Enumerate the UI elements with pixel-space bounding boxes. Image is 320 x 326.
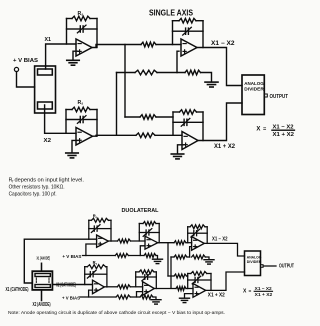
wire U2 output [93,134,137,137]
wire B5 feedback right [206,227,208,244]
capacitor B1 feedback [89,228,95,230]
wire X1 photodiode to op-amp U1 [46,44,76,69]
wire [187,275,188,277]
wire B4 + input to bias divider [137,292,143,297]
svg-text:X2 (CATHODE): X2 (CATHODE) [56,282,76,288]
svg-text:X1 − X2: X1 − X2 [255,286,272,291]
resistor B1 to B3 [118,239,131,243]
duolateral PSD sensor [32,271,52,290]
resistor Rf B6 [188,273,191,275]
resistor Rf U3 [173,20,180,22]
analog divider block bottom [245,251,261,276]
capacitor B4 feedback [136,276,145,278]
wire B3 feedback right [158,224,160,243]
wire U3 output X1-X2 to divider [197,48,242,86]
wire bias row B2 B4 [80,296,116,298]
resistor Rf B5 [188,226,190,228]
output pin top divider [264,94,267,97]
resistor B4 to B6 [176,287,186,291]
resistor Rf B4 [136,271,139,273]
svg-text:OUTPUT: OUTPUT [279,264,294,270]
wire B1 feedback left [88,220,90,239]
output pin bottom divider [261,265,264,268]
wire X1 cathode to op-amp B1 [24,239,96,283]
ground B6 + input [185,294,194,298]
wire U2 feedback left [65,110,67,134]
wire to U4 inverting input [155,134,182,136]
resistor bias row 2 [116,295,130,299]
svg-text:X1 − X2: X1 − X2 [211,41,235,47]
wire to B4 inverting input [130,286,142,288]
op-amp B5 [192,237,205,251]
svg-text:f: f [12,179,13,183]
svg-text:X1 + X2: X1 + X2 [208,293,225,299]
op-amp U2 [76,128,93,146]
wire crossover X2 vertical [116,73,118,136]
svg-text:Capacitors typ. 100 pf.: Capacitors typ. 100 pf. [9,191,57,197]
resistor Rf B1 [91,218,108,222]
ground B4 + network [151,299,161,301]
wire to U4 summing node [156,116,173,118]
resistor R3 U3 + to ground [185,70,201,75]
wire X2 anode stub [41,290,43,301]
wire U4 output X1+X2 to divider [198,103,242,141]
resistor R5 X1 to U4 summing input [140,115,156,120]
wire [130,296,140,298]
resistor R4 to U4 summing input [136,133,155,138]
wire B5 output X1-X2 to divider [204,243,244,256]
wire B4 feedback right [155,272,157,289]
wire X1 anode stub [41,263,43,271]
resistor B3 to B5 [174,241,186,245]
svg-text:+ V BIAS: + V BIAS [62,254,82,260]
capacitor C2 U2 feedback [66,119,80,121]
wire row X2 to U3 + [117,72,136,74]
op-amp B2 [93,280,105,294]
svg-text:SINGLE AXIS: SINGLE AXIS [149,7,193,17]
svg-text:f: f [82,102,84,106]
wire to B6 inverting input [186,288,193,290]
wire B2 feedback left [84,267,86,285]
op-amp U1 [76,39,92,56]
wire U1 output to node A [92,45,141,48]
capacitor C1 U1 feedback [67,28,81,30]
svg-text:=: = [263,126,267,132]
wire B6 feedback right [210,274,212,291]
resistor crossover to B6 summing node [174,274,187,278]
wire B2 output [104,286,117,288]
svg-text:X1 + X2: X1 + X2 [255,292,273,297]
wire U1 feedback right [96,19,98,48]
wire crossover B4 to B5 vertical [170,257,172,288]
wire U4 feedback left [172,112,174,135]
wire B2 feedback right [106,267,108,287]
wire B1 feedback right [110,220,112,241]
resistor Rf U1 [67,18,73,20]
wire B2 + input to bias [89,290,93,297]
resistor R1 to U3 inverting input [141,42,156,47]
svg-text:DIVIDER: DIVIDER [244,86,264,91]
capacitor B2 feedback [85,273,91,275]
wire [168,275,174,277]
wire to ground [156,256,158,259]
wire B4 feedback left [135,272,137,287]
svg-text:=: = [249,289,252,294]
resistor B4 + to ground [140,295,153,299]
wire to ground [201,73,212,82]
wire node A junction vertical [124,45,126,118]
svg-text:+ V BIAS: + V BIAS [62,295,81,301]
analog divider block top [242,75,264,115]
wire U3 feedback left [172,21,174,45]
wire B4 output [154,288,176,290]
svg-text:X1 (CATHODE): X1 (CATHODE) [6,287,29,293]
capacitor B6 feedback [188,279,195,281]
ground U3 + network [205,81,218,83]
svg-text:+ V BIAS: + V BIAS [13,58,39,64]
capacitor B3 feedback [139,232,146,234]
resistor B3 + to ground [144,254,156,258]
wire U4 feedback right [202,112,204,141]
resistor Rf B2 [85,266,88,268]
svg-text:X1 − X2: X1 − X2 [212,237,228,243]
op-amp B4 [143,282,155,296]
op-amp U3 [181,39,197,56]
wire crossover B3 to B6 vertical [167,243,169,276]
wire [171,256,174,258]
photodiode PSD single-axis [35,66,56,113]
wire B6 feedback left [187,274,189,289]
svg-text:X1 + X2: X1 + X2 [214,144,236,150]
wire B1 output [108,240,117,242]
resistor crossover to B5 + [174,255,187,259]
wire B6 output X1+X2 to divider [206,272,245,290]
wire U3 feedback right [202,21,204,48]
svg-text:X: X [243,289,247,295]
capacitor B5 feedback [188,232,194,234]
svg-text:f: f [96,262,97,266]
svg-text:f: f [96,215,97,219]
wire row X1 to U4 [125,116,140,118]
resistor B2 to B4 [117,285,130,289]
svg-text:X: X [256,127,260,133]
resistor bias row 1 [115,254,128,258]
resistor Rf U4 [173,111,180,113]
wire B5 feedback left [187,227,189,243]
op-amp B1 [97,235,109,247]
capacitor C3 U3 feedback [173,30,186,32]
wire U3 + input down [177,51,179,72]
ground B3 + network [153,258,163,260]
resistor Rf U2 [66,109,72,111]
wire to U3 inverting input [156,44,181,46]
op-amp B3 [145,236,158,249]
op-amp U4 [182,132,198,150]
wire +V bias to photodiode [17,72,35,87]
wire X2 cathode to op-amp B2 [52,284,92,286]
wire to ground [153,297,156,299]
ground U4 + input [178,145,185,154]
wire B3 feedback left [138,224,140,242]
ground B5 + network [204,259,214,261]
wire B3 output [158,242,174,244]
svg-text:OUTPUT: OUTPUT [270,94,289,100]
wire B3 + input to bias divider [140,246,145,256]
wire bias row B1 B3 [83,255,116,257]
ground U1 + input [73,51,78,60]
resistor Rf B3 [139,223,143,225]
svg-text:DUOLATERAL: DUOLATERAL [122,208,160,214]
svg-text:depends on input light level.: depends on input light level. [15,177,85,183]
wire U2 feedback right [96,110,98,137]
op-amp B6 [193,284,206,298]
svg-text:X1 + X2: X1 + X2 [273,132,295,138]
wire X2 photodiode to op-amp U2 [45,105,76,133]
wire to B5 inverting input [186,242,192,244]
ground U2 + input [72,140,78,152]
svg-text:ANALOG: ANALOG [244,81,264,86]
svg-text:Note: Anode operating circuit: Note: Anode operating circuit is duplica… [8,310,225,315]
svg-text:X1 (ANODE): X1 (ANODE) [37,256,51,261]
wire [128,255,144,257]
svg-text:DIVIDER: DIVIDER [247,259,262,264]
svg-text:X1: X1 [45,37,52,43]
svg-text:X2: X2 [44,138,52,144]
wire [157,72,185,74]
wire to ground [205,257,209,259]
resistor R2 U3 + input [135,70,157,75]
wire output bottom [263,265,276,267]
wire U1 feedback left [66,19,68,45]
svg-text:X2 (ANODE): X2 (ANODE) [33,302,51,308]
wire to B3 inverting input [131,240,146,242]
svg-text:Other resistors typ. 10KΩ.: Other resistors typ. 10KΩ. [9,184,65,190]
wire [187,256,190,258]
wire B1 + input to bias [86,244,97,256]
resistor B5 + to ground [192,255,206,259]
capacitor C4 U4 feedback [173,121,184,123]
wire B5 + input down [190,247,192,257]
